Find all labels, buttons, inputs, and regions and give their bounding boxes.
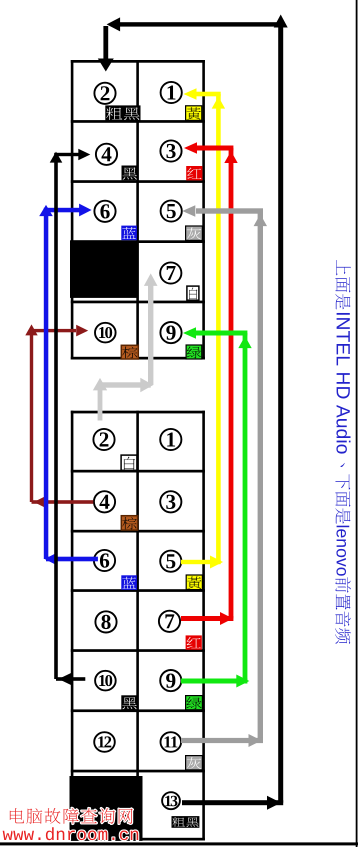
label 粗黑 (top pin2)	[105, 105, 140, 120]
watermark line 2: www.dnroom.cn	[3, 831, 13, 840]
wire red: top horizontal into pin3 with up and left arrowheads	[224, 151, 237, 163]
wire black: top horizontal into pin4 with up and right arrowheads	[50, 152, 63, 163]
wire white: horizontal jog with right arrowhead	[100, 382, 151, 387]
wire gray: top horizontal into pin5 with up and left arrowheads	[254, 214, 267, 226]
wire green: bottom horizontal from pin9 with right arrowhead	[181, 679, 247, 684]
sidebar caption: 上面是INTEL HD Audio、下面是lenovo前置音频	[335, 260, 351, 644]
pin 7 (top HD Audio header)	[160, 262, 181, 283]
top table grid (INTEL HD Audio header)	[71, 60, 205, 360]
label 绿 (top pin9)	[186, 345, 202, 359]
wire thick black: drop into top pin2 with down arrowhead	[103, 26, 108, 59]
page bottom border	[0, 842, 358, 845]
wire thick black: bottom horizontal from pin13 with right arrowhead	[182, 800, 283, 805]
label 红 (bottom pin7)	[186, 635, 202, 649]
pin 3 (bottom lenovo header)	[160, 491, 181, 512]
pin 2 (bottom lenovo header)	[93, 429, 114, 450]
wire white: stub rising from bottom pin2 with up arrowhead	[98, 385, 103, 421]
pin 1 (top HD Audio header)	[161, 82, 182, 103]
pin 10 (bottom lenovo header)	[95, 671, 116, 691]
pin 5 (top HD Audio header)	[161, 200, 182, 221]
label 白 (top pin7)	[187, 286, 199, 300]
wire yellow: top horizontal into pin1 with up and left arrowheads	[212, 97, 225, 109]
wire red: vertical run, bottom pin7 to top pin3	[229, 148, 234, 619]
pin 4 (bottom lenovo header)	[94, 491, 115, 512]
pin 3 (top HD Audio header)	[160, 140, 181, 161]
pin 6 (top HD Audio header)	[94, 201, 115, 222]
label 红 (top pin3)	[186, 166, 202, 180]
wire black: vertical run, bottom pin10 to top pin4	[54, 155, 58, 680]
wire green: top horizontal into pin9 with up and left arrowheads	[238, 336, 251, 348]
pin 7 (bottom lenovo header)	[159, 611, 180, 632]
pin 1 (bottom lenovo header)	[160, 429, 181, 450]
wire thick black: top horizontal with left arrowhead	[112, 22, 283, 26]
wire blue: top horizontal into pin6 with up and right arrowheads	[39, 205, 53, 216]
label 黑 (bottom pin10)	[121, 695, 137, 710]
pin 10 (top HD Audio header)	[95, 323, 116, 343]
bottom table grid (lenovo front audio)	[71, 411, 205, 841]
pin 11 (bottom lenovo header)	[161, 732, 182, 752]
label 棕 (top pin10)	[121, 345, 138, 359]
wire brown: bottom horizontal from pin4 with left arrowhead	[32, 500, 94, 504]
label 棕 (bottom pin4)	[121, 516, 137, 530]
pin 5 (bottom lenovo header)	[160, 551, 181, 572]
wire green: vertical run, bottom pin9 to top pin9	[243, 333, 248, 681]
pin 9 (bottom lenovo header)	[160, 670, 181, 691]
pin 8 (bottom lenovo header)	[95, 611, 116, 632]
pin 4 (top HD Audio header)	[96, 144, 117, 165]
pin 9 (top HD Audio header)	[160, 322, 181, 343]
label 灰 (bottom pin11)	[186, 756, 203, 770]
wire yellow: bottom horizontal from pin5 with right arrowhead	[181, 560, 221, 564]
wire gray: bottom horizontal from pin11 with right arrowhead	[181, 738, 263, 743]
pin 12 (bottom lenovo header)	[94, 732, 115, 752]
label 蓝 (top pin6)	[121, 226, 137, 241]
label 黑 (top pin4)	[122, 166, 138, 181]
wire red: bottom horizontal from pin7 with right arrowhead	[181, 616, 233, 621]
wire thick black: vertical run at far right with up arrowhead	[278, 20, 283, 803]
wire brown: top horizontal into pin10 with up and right arrowheads	[25, 324, 37, 335]
label 黃 (bottom pin5)	[186, 575, 202, 590]
top table blank key cell (black, row 4 left)	[70, 240, 138, 298]
label 白 (bottom pin2)	[121, 455, 137, 470]
wire yellow: vertical run, bottom pin5 to top pin1	[216, 94, 221, 562]
wire gray: vertical run, bottom pin11 to top pin5	[258, 211, 263, 741]
label 蓝 (bottom pin6)	[121, 575, 137, 590]
label 黃 (top pin1)	[186, 106, 202, 121]
wire blue: vertical run, bottom pin6 to top pin6	[44, 210, 49, 559]
label 粗黑 (bottom pin13)	[172, 816, 200, 828]
label 灰 (top pin5)	[186, 226, 203, 240]
wire blue: bottom horizontal from pin6 with left arrowhead	[46, 557, 98, 562]
wire brown: vertical run, bottom pin4 to top pin10	[30, 331, 33, 502]
watermark line 1: 电脑故障查询网	[10, 808, 24, 823]
wire black: bottom horizontal from pin10 with left arrowhead	[56, 677, 85, 681]
bottom table blank key cell (black, row 7 left)	[70, 776, 143, 841]
pin 6 (bottom lenovo header)	[94, 550, 115, 571]
pin 2 (top HD Audio header)	[94, 83, 115, 104]
pin 13 (bottom lenovo header)	[162, 792, 180, 809]
label 绿 (bottom pin9)	[186, 696, 203, 710]
page right border	[356, 0, 358, 847]
wire white: vertical run into top pin7 with up arrowhead	[148, 280, 153, 385]
